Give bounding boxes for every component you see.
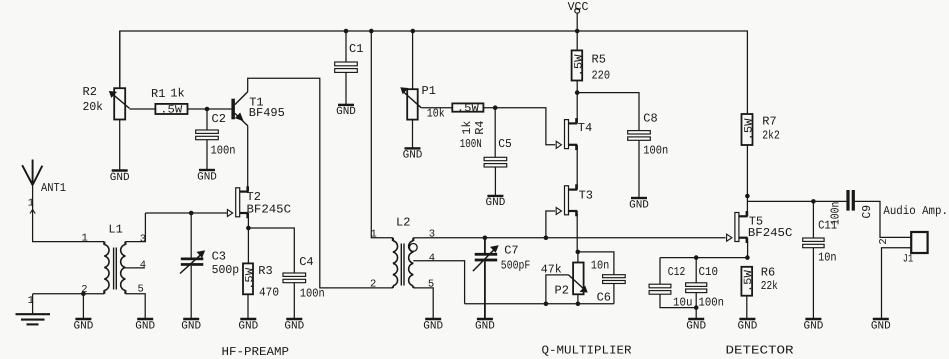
svg-text:GND: GND [871,320,891,332]
node C3 junction [189,211,194,216]
wire C3 bottom lead [190,266,192,319]
svg-text:GND: GND [238,320,258,332]
svg-text:R6: R6 [761,265,775,279]
capacitor C10 [686,265,724,310]
wire R6 bottom lead [746,296,748,319]
wire R7 bottom to T5 drain [746,145,748,216]
wire P2 wiper [546,275,569,304]
wire T3 source down [576,214,578,252]
wire C12 bottom [660,294,696,307]
potentiometer R2 [83,85,130,119]
capacitor C8 [628,111,669,157]
wire tank net [427,237,726,239]
antenna ANT1 [22,160,66,195]
wire P2 bottom lead [577,294,579,304]
pin 5 label L2 [428,278,434,290]
text DETECTOR [726,343,794,357]
node C2 junction [205,107,210,112]
capacitor C9 [829,190,875,225]
wire T2 source down [247,216,249,228]
wire R1 to T1 base [188,108,232,110]
svg-text:100N: 100N [460,137,482,151]
wire C12 top lead [659,258,661,285]
pin 5 label L1 [138,284,144,296]
pin 4 label L2 [429,252,435,264]
svg-text:Q-MULTIPLIER: Q-MULTIPLIER [542,343,632,357]
wire P1 bottom to gnd [412,120,414,149]
svg-text:10k: 10k [427,106,445,120]
ground GND under C8 [629,198,649,211]
svg-text:5: 5 [428,278,434,290]
wire L1 pin3 to T2 gate [145,212,227,214]
svg-text:.5W: .5W [573,54,585,76]
node R4 C5 junction [493,105,498,110]
node VCC rail junctions [344,29,580,34]
pin 1 label ANT1 [28,197,34,209]
svg-text:C7: C7 [504,243,518,257]
ground GND under C2 [197,170,217,183]
svg-text:GND: GND [110,172,130,184]
svg-text:GND: GND [738,320,758,332]
wire T4 source to T3 drain [576,145,578,190]
wire L2 pin4 [413,261,464,304]
wire R3 bottom lead [247,294,249,319]
svg-text:C2: C2 [212,112,226,126]
capacitor C6 [591,258,625,304]
wire C10 top lead [695,258,697,283]
wire T5 source down [747,242,749,258]
wire C11 top lead [812,201,814,238]
ground GND under C7 [475,319,495,332]
wire C9 right lead [855,201,911,237]
svg-text:1k: 1k [170,87,184,101]
node T5 source junction [745,255,750,260]
svg-text:1: 1 [371,229,377,241]
svg-text:GND: GND [475,320,495,332]
wire R4 to T4 gate [483,108,555,145]
ground GND under C11 [804,319,824,332]
svg-text:2: 2 [370,279,376,291]
ground earth symbol [16,294,51,325]
wire rail to L2 pin1 [371,31,393,238]
svg-text:BF245C: BF245C [247,203,292,217]
wire L1 pin4 stub [125,267,144,269]
svg-text:R5: R5 [592,53,606,67]
wire C1 top lead [345,31,347,62]
svg-text:C12: C12 [668,265,686,279]
potentiometer P2 [541,263,587,298]
ground GND under C10 [686,319,706,332]
wire R2 wiper to R1 [130,108,156,110]
svg-text:.5W: .5W [743,118,755,140]
ground GND under L2 pin5 [423,319,443,332]
wire C8 bottom lead [638,140,640,198]
pin 2 label L2 [370,279,376,291]
ground GND under R6 [738,319,758,332]
ground GND under P1 [403,148,423,161]
svg-text:22k: 22k [761,279,778,293]
node R7 T5 junction [745,194,750,199]
svg-text:1: 1 [82,232,88,244]
svg-text:5: 5 [138,284,144,296]
svg-text:.5W: .5W [457,103,479,115]
capacitor C1 [335,42,364,72]
svg-text:C3: C3 [212,249,226,263]
svg-text:GND: GND [181,320,201,332]
transistor T4 [556,118,592,150]
svg-text:500pF: 500pF [501,259,531,273]
wire C4 bottom lead [293,283,295,319]
svg-text:1k: 1k [460,121,474,135]
svg-text:C9: C9 [860,205,874,219]
wire C5 top lead [494,108,496,158]
pin 4 label L1 [140,260,146,272]
resistor R7 [742,114,780,145]
svg-text:C4: C4 [299,255,313,269]
node C10 top junction [694,255,699,260]
svg-text:GND: GND [486,197,506,209]
inductor L1 transformer [104,223,125,294]
ground GND under C4 [284,319,304,332]
pin 1 label earth [28,295,34,307]
svg-text:GND: GND [74,320,94,332]
node C11 junction [811,199,816,204]
wire C1 bottom lead [345,72,347,105]
svg-text:GND: GND [284,320,304,332]
svg-text:2: 2 [81,284,87,296]
svg-text:GND: GND [336,106,356,118]
wire T1 collector [248,78,393,288]
ground GND under C1 [336,105,356,118]
svg-text:3: 3 [140,233,146,245]
wire C5 bottom lead [494,167,496,196]
svg-text:R4: R4 [473,121,487,135]
wire P2 top lead [577,252,579,263]
text HF-PREAMP [222,345,290,359]
resistor R3 [243,263,279,299]
capacitor C2 [196,112,236,157]
capacitor C5 [484,137,512,167]
svg-text:ANT1: ANT1 [41,181,66,195]
svg-text:100n: 100n [643,144,668,158]
svg-text:P1: P1 [422,84,436,98]
svg-text:R2: R2 [83,85,97,99]
wire Qmult bottom net [465,303,614,305]
wire T1 emitter to T2 drain [247,126,249,192]
resistor R1 [151,87,188,117]
svg-text:Audio Amp.: Audio Amp. [883,204,948,218]
svg-text:GND: GND [197,171,217,183]
node L1 pin2 gnd junction [81,292,86,297]
svg-text:C1: C1 [349,42,363,56]
wire L2 pin5 [413,288,433,319]
ground GND under R2 [110,171,130,184]
wire T3 gate riser [546,211,555,238]
svg-text:100n: 100n [211,143,236,157]
wire VCC top rail [120,31,748,114]
wire C10 bottom [695,293,697,319]
svg-text:GND: GND [423,320,443,332]
svg-text:4: 4 [429,252,435,264]
svg-text:J1: J1 [903,253,914,265]
node Qmult bottom junctions [544,302,581,307]
transistor T2 [227,186,291,218]
wire C6 bottom lead [613,284,615,304]
svg-text:BF495: BF495 [249,106,285,120]
svg-text:GND: GND [403,150,423,162]
wire rail to P1 [412,31,414,89]
svg-text:T3: T3 [579,189,593,203]
wire antenna to L1 pin1 [33,185,105,242]
wire rail to R2 [119,31,121,88]
capacitor C12 [649,265,692,310]
svg-text:20k: 20k [83,100,104,114]
svg-text:.5W: .5W [244,267,256,289]
node tank junctions [483,236,549,241]
text Audio Amp [883,204,948,218]
wire R5 top [576,31,578,50]
capacitor C11 [803,218,837,264]
wire gnd drop L1 pin2 [82,294,84,319]
svg-text:C10: C10 [699,265,719,279]
capacitor C7 variable [473,243,530,272]
svg-text:4: 4 [140,260,146,272]
svg-text:GND: GND [686,320,706,332]
svg-text:VCC: VCC [568,0,589,14]
pin tick ANT1 [30,210,35,214]
svg-text:2: 2 [878,238,890,244]
pin 3 label L1 [140,233,146,245]
wire R5 bottom to T4 drain [576,81,578,124]
potentiometer P1 [401,84,445,121]
wire J1 pin1 to gnd [882,248,911,319]
svg-text:C5: C5 [498,137,512,151]
svg-text:HF-PREAMP: HF-PREAMP [222,345,290,359]
capacitor C3 variable [180,249,239,277]
svg-text:C8: C8 [643,111,657,125]
wire T2 source to C4 [248,228,294,273]
wire L1 pin5 stub [125,294,145,319]
svg-text:GND: GND [135,320,155,332]
svg-text:10n: 10n [818,251,837,265]
pin 1 label L1 [82,232,88,244]
wire C2 bottom lead [206,140,208,170]
svg-text:220: 220 [592,68,611,82]
svg-text:100n: 100n [300,286,325,300]
wire C7 bottom lead [484,261,486,319]
svg-text:L2: L2 [396,215,410,229]
ground GND under L1 pin5 [135,319,155,332]
svg-text:R3: R3 [258,264,272,278]
svg-text:.5W: .5W [160,104,182,116]
wire C11 bottom lead [812,248,814,319]
ground GND under R3 [238,319,258,332]
svg-text:470: 470 [259,285,279,299]
svg-text:.5W: .5W [743,270,755,292]
svg-text:DETECTOR: DETECTOR [726,343,794,357]
pin 2 label L1 [81,284,87,296]
wire T5 drain to C9 [747,200,846,202]
node T3 source junction [576,250,581,255]
pin 1 label L2 [371,229,377,241]
resistor R6 [741,265,777,295]
node R5 C8 junction [575,90,580,95]
wire C2 top lead [206,109,208,130]
ground GND under C3 [181,319,201,332]
text Q-MULTIPLIER [542,343,632,357]
resistor R4 [452,103,487,151]
transistor T3 [556,184,593,216]
ground GND under J1 [871,319,891,332]
wire C6 branch [578,252,614,275]
ground GND under C5 [486,196,506,209]
wire C8 branch [577,93,639,131]
svg-text:GND: GND [804,320,824,332]
svg-text:T4: T4 [578,121,592,135]
inductor L2 transformer [393,215,417,288]
svg-text:BF245C: BF245C [748,226,793,240]
svg-text:R7: R7 [762,114,776,128]
resistor R5 [572,50,610,82]
svg-text:100n: 100n [829,202,843,226]
wire VCC drop [576,13,578,31]
node C12 C10 bottom junction [694,305,699,310]
transistor T5 [727,211,793,243]
svg-text:C6: C6 [597,290,611,304]
svg-text:500p: 500p [212,263,240,277]
wire R2 bottom to gnd [119,120,121,171]
svg-text:3: 3 [429,229,435,241]
wire L2 pin3 stub [413,237,427,239]
wire detector source net [660,257,747,259]
ground GND under L1 pin2 [74,319,94,332]
svg-text:2k2: 2k2 [762,129,780,143]
power VCC symbol [568,0,589,14]
wire earth to L1 pin2 [33,293,105,295]
wire C3 top lead [190,213,192,258]
transistor T1 [231,92,284,126]
pin 3 label L2 [429,229,435,241]
wire P1 wiper to R4 [421,107,452,109]
svg-text:100n: 100n [699,295,725,309]
svg-text:GND: GND [629,199,649,211]
wire T2 source to R3 [247,228,249,263]
svg-text:R1: R1 [151,87,165,101]
svg-text:L1: L1 [108,223,122,237]
wire L1 pin3 stub [125,213,145,242]
pin 2 label J1 [878,238,890,244]
node T2 source junction [246,226,251,231]
svg-text:P2: P2 [555,283,569,297]
capacitor C4 [283,255,325,300]
wire C7 top lead [484,238,486,253]
svg-text:10n: 10n [591,258,610,272]
connector J1 [903,232,928,265]
